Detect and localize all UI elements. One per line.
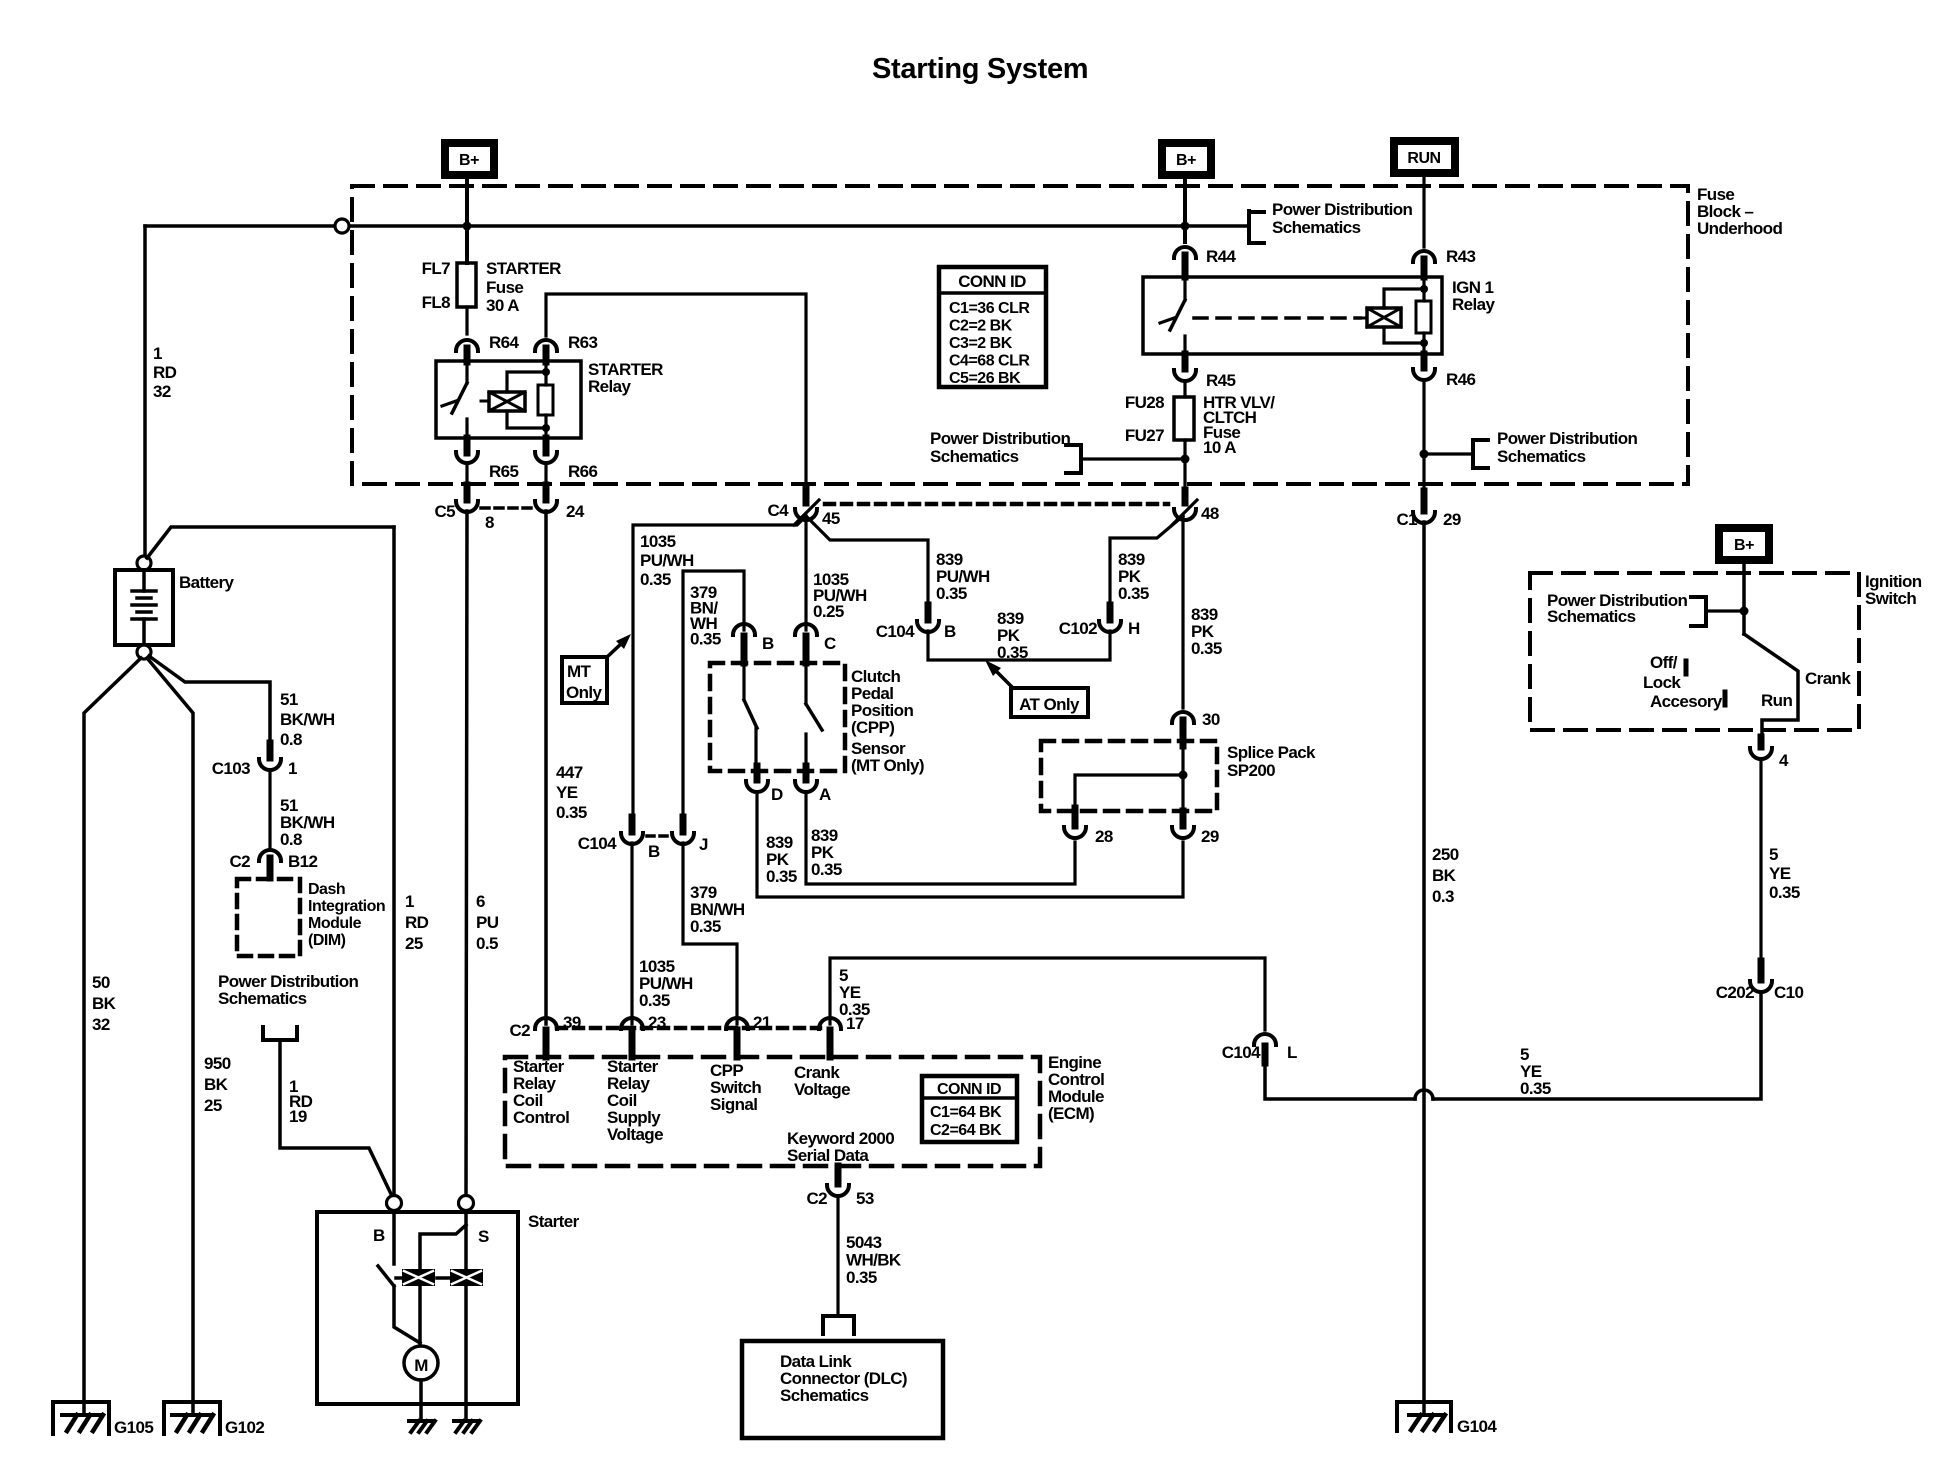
svg-text:C104: C104 <box>876 622 915 641</box>
CONN ID table (ECM) <box>922 1076 1017 1142</box>
svg-text:B: B <box>944 622 956 641</box>
fuse FU28/FU27 HTR VLV/CLTCH 10A <box>1174 397 1194 440</box>
IGN1 relay switch <box>1183 277 1186 300</box>
connector ignition pin 4 <box>1758 737 1765 747</box>
svg-text:C102: C102 <box>1059 619 1097 638</box>
IGN1 relay coil <box>1367 308 1401 327</box>
svg-text:R44: R44 <box>1206 247 1237 266</box>
ground G104 <box>1397 1402 1451 1431</box>
svg-text:FL7: FL7 <box>422 259 451 278</box>
connector 30 <box>1172 712 1194 723</box>
IGN1 relay resistor <box>1416 301 1431 333</box>
svg-text:C104: C104 <box>1222 1043 1261 1062</box>
svg-text:C: C <box>824 634 836 653</box>
svg-text:29: 29 <box>1201 827 1219 846</box>
wire S through winding2 to ground <box>464 1211 468 1269</box>
wire C4 down to CPP C <box>804 516 807 630</box>
svg-text:FU27: FU27 <box>1125 426 1164 445</box>
svg-text:C10: C10 <box>1774 983 1804 1002</box>
connector divider dashes C5 <box>481 506 533 510</box>
wire R45 to fuse FU28 <box>1183 381 1186 397</box>
CONN ID table (fuse block) <box>939 267 1046 387</box>
starter relay box <box>436 361 581 438</box>
ignition switch dashed box <box>1530 573 1859 730</box>
svg-text:AT Only: AT Only <box>1019 695 1080 714</box>
wire 447 YE 0.35 down to ECM 39 <box>544 511 548 1024</box>
connector C2 pin 39 <box>535 1018 557 1029</box>
connector C1 pin 29 <box>1421 491 1428 511</box>
svg-text:C202: C202 <box>1716 983 1754 1002</box>
wire R46 to C1 29 <box>1422 380 1425 491</box>
wire junction to bracket ignition <box>1707 609 1744 612</box>
svg-text:B: B <box>648 842 660 861</box>
node circle starter B <box>387 1196 402 1211</box>
connector R66 <box>543 438 550 453</box>
svg-text:M: M <box>414 1356 428 1375</box>
wire junction to bracket right <box>1424 452 1473 455</box>
starter relay coil <box>489 392 525 411</box>
node junction at B+ middle <box>1181 222 1190 231</box>
connector R46 <box>1421 354 1428 368</box>
svg-text:8: 8 <box>485 513 494 532</box>
svg-text:C2: C2 <box>806 1189 827 1208</box>
wire R65 to C5 <box>465 463 468 485</box>
svg-text:R65: R65 <box>489 462 519 481</box>
svg-text:C5: C5 <box>434 502 455 521</box>
svg-text:B+: B+ <box>459 152 479 169</box>
svg-text:30: 30 <box>1202 710 1220 729</box>
node circle starter S <box>459 1196 474 1211</box>
wire B to ECM 23 <box>630 843 633 1024</box>
dash between windings <box>437 1276 449 1280</box>
connector C104 pin L <box>1254 1034 1276 1045</box>
wire 48 branch to C102 H <box>1110 516 1183 605</box>
svg-text:S: S <box>478 1227 489 1246</box>
IGN1 relay internal wires <box>1384 277 1424 354</box>
svg-text:Lock: Lock <box>1643 673 1681 692</box>
data link connector DLC box <box>742 1341 943 1438</box>
wire A to 28 <box>806 792 1075 884</box>
connector C102 pin H <box>1107 605 1114 620</box>
svg-text:B: B <box>373 1226 385 1245</box>
svg-text:FL8: FL8 <box>422 293 451 312</box>
starter relay resistor <box>538 385 553 415</box>
wire 5 YE 0.35 pin4 to C202 <box>1759 759 1762 961</box>
starter solenoid winding 2 <box>450 1269 483 1286</box>
wire B+ into ignition switch <box>1742 564 1746 634</box>
connector row dotted line C4 to 48 <box>825 502 1168 507</box>
node junction below FU27 <box>1181 455 1190 464</box>
connector 29 <box>1180 811 1187 826</box>
motor M <box>404 1346 438 1380</box>
connector C104 pin B (ECM branch) <box>629 817 636 832</box>
starter relay switch <box>465 361 468 383</box>
svg-text:48: 48 <box>1201 504 1219 523</box>
wire 1 RD 19 to starter B <box>280 1040 392 1196</box>
starter switch from B <box>392 1211 396 1264</box>
fuse block underhood dashed box <box>352 186 1688 484</box>
svg-text:R63: R63 <box>568 333 598 352</box>
svg-text:CONN ID: CONN ID <box>937 1081 1001 1098</box>
node pass-through circle <box>335 219 349 233</box>
wire main horizontal battery feed <box>145 224 335 228</box>
node junction below R46 <box>1420 450 1429 459</box>
svg-text:CONN ID: CONN ID <box>958 272 1026 291</box>
wire motor to ground <box>419 1380 423 1421</box>
connector R64 <box>456 340 478 351</box>
contact tick off/lock <box>1684 661 1689 674</box>
svg-text:G104: G104 <box>1457 1417 1497 1436</box>
svg-text:45: 45 <box>822 509 840 528</box>
CPP switch C-A <box>804 663 807 704</box>
power node RUN <box>1394 141 1455 173</box>
node junction at B+ left <box>463 222 472 231</box>
splice pack SP200 dashed box <box>1041 741 1217 811</box>
svg-text:B12: B12 <box>288 852 318 871</box>
wire battery plus to 1RD25 <box>147 527 394 558</box>
wire D to 29 <box>757 792 1183 897</box>
wire J loop to CPP B <box>683 571 744 818</box>
starter box <box>317 1212 518 1404</box>
starter relay internal wires <box>507 362 546 438</box>
svg-text:J: J <box>699 835 708 854</box>
wire RUN to R43 <box>1422 173 1425 247</box>
wire AT jumper B to H <box>928 631 1110 660</box>
starter solenoid branch from S <box>420 1225 466 1269</box>
svg-text:R64: R64 <box>489 333 520 352</box>
connector C104 pin J <box>680 817 687 832</box>
connector 48 <box>1182 490 1189 503</box>
connector CPP pin D <box>754 766 761 780</box>
wire winding1 to motor <box>418 1286 422 1347</box>
svg-text:Crank: Crank <box>1805 669 1851 688</box>
svg-text:D: D <box>771 785 783 804</box>
svg-text:Starting System: Starting System <box>872 53 1088 85</box>
svg-text:R66: R66 <box>568 462 598 481</box>
connector 28 <box>1072 808 1079 826</box>
ECM dashed box <box>505 1057 1040 1166</box>
svg-text:B+: B+ <box>1176 152 1196 169</box>
wire battery minus to G105 <box>84 658 141 1415</box>
wire battery minus to G102 <box>147 658 193 1415</box>
CPP sensor dashed box <box>710 663 845 771</box>
fuse FL7/FL8 STARTER 30A <box>457 263 476 307</box>
svg-text:24: 24 <box>566 502 585 521</box>
svg-text:B: B <box>762 634 774 653</box>
MT Only box with arrow <box>562 657 607 703</box>
wire battery minus to C103 <box>149 656 270 743</box>
node junction ignition <box>1740 607 1749 616</box>
connector R63 <box>535 340 557 351</box>
svg-text:MT: MT <box>567 662 592 681</box>
svg-text:R43: R43 <box>1446 247 1476 266</box>
wire R66 to 24 <box>544 463 547 485</box>
svg-text:Battery: Battery <box>179 573 235 592</box>
svg-text:4: 4 <box>1779 751 1789 770</box>
wire C103 to C2 B12 <box>268 770 271 849</box>
reference bracket power distribution (ignition) <box>1691 597 1706 626</box>
wire B+ to R44 <box>1183 177 1187 242</box>
reference bracket power distribution (mid) <box>1066 445 1081 473</box>
wire 6 PU 0.5 down to starter S <box>466 511 467 1194</box>
connector C4 pin 45 <box>803 489 810 503</box>
svg-text:L: L <box>1287 1043 1297 1062</box>
svg-text:Off/: Off/ <box>1650 653 1678 672</box>
wire 5043 WH/BK 0.35 <box>836 1196 839 1315</box>
connector R65 <box>464 438 471 453</box>
wire fuse to R64 <box>465 307 468 334</box>
svg-text:A: A <box>819 785 831 804</box>
svg-text:39: 39 <box>563 1013 581 1032</box>
svg-text:21: 21 <box>753 1013 771 1032</box>
connector C5 pin 8 <box>464 485 471 500</box>
svg-text:IGN 1Relay: IGN 1Relay <box>1452 278 1496 314</box>
contact tick accesory <box>1723 692 1728 705</box>
svg-text:R46: R46 <box>1446 370 1476 389</box>
svg-text:C1=64 BKC2=64 BK: C1=64 BKC2=64 BK <box>930 1104 1002 1139</box>
svg-text:29: 29 <box>1443 510 1461 529</box>
power node B+ (ignition) <box>1719 528 1769 560</box>
wire R63 to C4 <box>546 294 806 489</box>
power node B+ (middle) <box>1162 143 1211 175</box>
connector row dotted line ECM <box>557 1026 820 1031</box>
svg-text:C2: C2 <box>509 1021 530 1040</box>
IGN 1 relay box <box>1143 277 1442 354</box>
svg-text:1: 1 <box>288 759 297 778</box>
ground G102 <box>164 1402 220 1434</box>
power node B+ (left) <box>445 143 494 175</box>
wire B+ to fuse FL7 <box>465 177 469 263</box>
AT Only box with arrow <box>1011 688 1088 717</box>
splice pack internal wires <box>1075 746 1183 811</box>
svg-text:28: 28 <box>1095 827 1113 846</box>
ground G105 <box>53 1402 109 1434</box>
svg-text:Starter: Starter <box>528 1212 580 1231</box>
connector C103 pin 1 <box>267 743 274 758</box>
svg-text:H: H <box>1128 619 1140 638</box>
svg-text:C1: C1 <box>1396 510 1417 529</box>
ground starter motor <box>409 1419 433 1423</box>
svg-text:C2: C2 <box>229 852 250 871</box>
starter solenoid winding 1 <box>402 1269 435 1286</box>
connector divider dashes B-J <box>647 834 668 838</box>
connector C2 pin B12 <box>259 850 281 861</box>
svg-text:Accesory: Accesory <box>1650 692 1723 711</box>
wire C4 to 1035 PU/WH 0.35 branch left <box>633 516 806 817</box>
reference bracket power distribution (right) <box>1473 440 1488 468</box>
svg-text:23: 23 <box>648 1013 666 1032</box>
wire J to ECM 21 <box>683 843 737 1024</box>
svg-text:379BN/WH0.35: 379BN/WH0.35 <box>690 583 721 649</box>
connector ECM pin 23 <box>621 1018 643 1029</box>
svg-text:RUN: RUN <box>1407 150 1440 167</box>
svg-text:Only: Only <box>566 683 603 702</box>
connector ECM pin 21 <box>726 1018 748 1029</box>
svg-text:17: 17 <box>846 1014 864 1033</box>
wire junction to bracket <box>1081 457 1185 460</box>
connector C104 pin B (AT) <box>925 605 932 620</box>
connector ECM pin 17 <box>819 1018 841 1029</box>
connector CPP pin A <box>803 766 810 780</box>
ground starter solenoid <box>454 1419 478 1423</box>
connector R45 <box>1182 354 1189 369</box>
reference bracket to power distribution (left) <box>263 1027 297 1040</box>
dash integration module DIM dashed box <box>237 879 300 956</box>
wire continue to C104 L <box>1265 1063 1415 1099</box>
svg-text:53: 53 <box>856 1189 874 1208</box>
wire FU27 to 48 <box>1183 440 1186 490</box>
reference bracket power distribution (top) <box>1249 211 1264 243</box>
wire 250 BK 0.3 down to G104 <box>1422 522 1426 1414</box>
svg-text:FU28: FU28 <box>1125 393 1164 412</box>
wire C4 to AT branch right <box>806 516 928 605</box>
svg-text:G105: G105 <box>114 1418 153 1437</box>
svg-text:B+: B+ <box>1734 537 1754 554</box>
wire hop over RUN wire <box>1415 1090 1433 1099</box>
ignition switch blade to crank <box>1744 634 1798 737</box>
svg-text:C104: C104 <box>578 834 617 853</box>
svg-text:C103: C103 <box>212 759 250 778</box>
svg-text:G102: G102 <box>225 1418 264 1437</box>
wire crank voltage 17 to C104 L <box>830 958 1265 1030</box>
connector R43 <box>1413 251 1435 262</box>
svg-text:Run: Run <box>1761 691 1792 710</box>
svg-text:C4: C4 <box>767 501 789 520</box>
battery <box>137 556 151 570</box>
svg-text:R45: R45 <box>1206 371 1236 390</box>
wire C202 down and left to C104 L <box>1433 992 1761 1099</box>
wire 48 down to 30 <box>1181 516 1184 708</box>
svg-text:IgnitionSwitch: IgnitionSwitch <box>1865 572 1922 608</box>
IGN1 relay actuator dashed line <box>1194 316 1360 320</box>
connector C2 pin 53 <box>835 1166 842 1184</box>
connector R44 <box>1174 247 1196 258</box>
connector C5 pin 24 <box>543 485 550 500</box>
connector CPP pin B <box>733 624 755 635</box>
wire battery feed vertical left <box>143 226 147 556</box>
connector C202 pin C10 <box>1758 961 1765 980</box>
reference bracket to DLC <box>823 1316 854 1334</box>
CPP switch B-D <box>742 663 745 700</box>
wire 1 RD 25 vertical <box>392 527 396 1194</box>
connector CPP pin C <box>795 624 817 635</box>
